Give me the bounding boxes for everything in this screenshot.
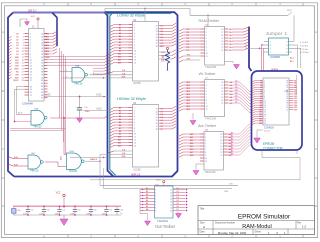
capacitors C2-C7 bbox=[23, 206, 112, 217]
bus bottom horizontal bbox=[14, 171, 178, 177]
svg-text:3: 3 bbox=[155, 192, 156, 194]
svg-text:A20C: A20C bbox=[96, 94, 102, 97]
svg-text:2: 2 bbox=[155, 189, 156, 191]
svg-text:DAT 0..7: DAT 0..7 bbox=[28, 9, 37, 13]
svg-text:5-6:Sim: 5-6:Sim bbox=[302, 49, 309, 51]
svg-text:2: 2 bbox=[30, 36, 31, 38]
wires U1 to gate U5A inputs bbox=[60, 70, 73, 79]
svg-text:3: 3 bbox=[134, 113, 135, 115]
svg-text:RAM-Treiber: RAM-Treiber bbox=[199, 19, 220, 23]
svg-text:6: 6 bbox=[134, 39, 135, 41]
wire U6 VCC bbox=[207, 14, 209, 26]
svg-text:Monday, May 22, 2000: Monday, May 22, 2000 bbox=[218, 231, 247, 235]
svg-text:5: 5 bbox=[270, 48, 271, 50]
svg-text:5: 5 bbox=[134, 36, 135, 38]
section label Jumper 1 bbox=[266, 31, 288, 36]
svg-text:/CE: /CE bbox=[122, 150, 126, 152]
svg-text:45: 45 bbox=[41, 92, 43, 94]
svg-text:14: 14 bbox=[134, 145, 136, 147]
svg-text:43: 43 bbox=[41, 86, 43, 88]
svg-text:A19C: A19C bbox=[45, 94, 51, 97]
svg-text:6: 6 bbox=[287, 48, 288, 50]
svg-text:17: 17 bbox=[264, 116, 266, 118]
cap row top wire bbox=[13, 205, 121, 208]
svg-text:2: 2 bbox=[287, 41, 288, 43]
svg-text:VCC: VCC bbox=[287, 10, 292, 12]
svg-text:DIR: DIR bbox=[187, 59, 191, 61]
svg-text:U5A: U5A bbox=[75, 65, 80, 68]
svg-text:5: 5 bbox=[155, 198, 156, 200]
svg-text:11: 11 bbox=[205, 161, 207, 163]
svg-text:17: 17 bbox=[221, 32, 223, 34]
wire gray top horizontal bbox=[105, 8, 190, 15]
svg-text:16: 16 bbox=[220, 140, 222, 142]
svg-text:6: 6 bbox=[30, 48, 31, 50]
title block Title label bbox=[200, 207, 205, 211]
svg-text:38: 38 bbox=[41, 71, 43, 73]
svg-text:14: 14 bbox=[170, 198, 172, 200]
svg-text:9: 9 bbox=[134, 131, 135, 133]
svg-text:2: 2 bbox=[134, 110, 135, 112]
bus data vertical DBUS bbox=[105, 12, 178, 176]
svg-text:12: 12 bbox=[30, 66, 32, 68]
svg-text:18: 18 bbox=[221, 29, 223, 31]
svg-text:6: 6 bbox=[155, 201, 156, 203]
svg-text:16: 16 bbox=[170, 192, 172, 194]
svg-text:10: 10 bbox=[205, 158, 207, 160]
svg-text:Wr-Treiber: Wr-Treiber bbox=[199, 72, 217, 76]
svg-text:14: 14 bbox=[156, 34, 158, 36]
svg-text:EPROM Simulator: EPROM Simulator bbox=[238, 214, 291, 221]
svg-text:100n: 100n bbox=[86, 213, 90, 215]
svg-text:ACK: ACK bbox=[18, 112, 23, 115]
long wire OE bbox=[100, 184, 238, 186]
svg-text:/WE: /WE bbox=[121, 77, 126, 79]
svg-text:19: 19 bbox=[30, 89, 32, 91]
svg-text:HIGHer 32 KByte: HIGHer 32 KByte bbox=[117, 96, 147, 101]
svg-text:18: 18 bbox=[264, 118, 266, 120]
svg-text:VCC: VCC bbox=[156, 179, 161, 181]
svg-text:12: 12 bbox=[156, 111, 158, 113]
ground at U8 bbox=[193, 164, 204, 175]
section label HIGHer 32 KByte bbox=[117, 96, 147, 101]
bus entries U1 to data bus bbox=[48, 31, 58, 54]
svg-text:74HC08: 74HC08 bbox=[69, 171, 78, 173]
svg-text:9: 9 bbox=[134, 48, 135, 50]
title block Size cell bbox=[200, 222, 205, 229]
svg-text:16: 16 bbox=[221, 88, 223, 90]
svg-text:74HC541: 74HC541 bbox=[157, 219, 169, 223]
svg-text:17: 17 bbox=[170, 189, 172, 191]
jumper J2 body bbox=[269, 38, 289, 55]
svg-text:10: 10 bbox=[206, 53, 208, 55]
svg-text:7: 7 bbox=[155, 204, 156, 206]
connector J3 body bbox=[263, 78, 289, 125]
svg-text:18: 18 bbox=[156, 46, 158, 48]
svg-text:/OE: /OE bbox=[122, 153, 126, 155]
net label A20 vertical bbox=[60, 155, 63, 160]
wires U6 outputs to bus bbox=[233, 27, 249, 50]
nand gate U5B bbox=[31, 109, 47, 129]
svg-text:3: 3 bbox=[93, 73, 94, 75]
svg-text:5: 5 bbox=[206, 91, 207, 93]
RAM U2 refdes bbox=[133, 19, 137, 22]
resistor R1 bbox=[161, 50, 170, 70]
svg-text:14: 14 bbox=[264, 109, 266, 111]
wire R1 to net bbox=[167, 69, 169, 71]
svg-text:13: 13 bbox=[264, 107, 266, 109]
svg-text:CON8DIP: CON8DIP bbox=[270, 57, 281, 59]
junction VCC cap row bbox=[63, 205, 65, 207]
svg-text:27: 27 bbox=[41, 39, 43, 41]
svg-text:1: 1 bbox=[30, 34, 31, 36]
wire pair below gates bbox=[10, 129, 66, 131]
nand gate U5C bbox=[28, 153, 43, 173]
connector U1 right pins bbox=[41, 34, 47, 100]
svg-text:44: 44 bbox=[41, 89, 43, 91]
wires U8 outputs to connector bus bbox=[228, 124, 252, 156]
connector U1 body bbox=[29, 29, 45, 102]
svg-text:11: 11 bbox=[134, 137, 136, 139]
svg-text:14: 14 bbox=[221, 41, 223, 43]
svg-text:13: 13 bbox=[220, 149, 222, 151]
connector U1 name CONN48 bbox=[22, 101, 33, 105]
RAM U2 body bbox=[133, 22, 159, 82]
svg-text:3: 3 bbox=[206, 32, 207, 34]
svg-text:12: 12 bbox=[156, 28, 158, 30]
svg-text:Jumper 1: Jumper 1 bbox=[266, 31, 288, 36]
svg-text:9: 9 bbox=[205, 155, 206, 157]
svg-text:22: 22 bbox=[286, 94, 288, 96]
connector U1 left pins and labels bbox=[13, 34, 31, 83]
svg-text:27: 27 bbox=[286, 83, 288, 85]
svg-text:1-2:A15: 1-2:A15 bbox=[302, 41, 309, 44]
svg-text:8: 8 bbox=[287, 52, 288, 54]
svg-text:11: 11 bbox=[222, 50, 224, 52]
svg-text:14: 14 bbox=[220, 146, 222, 148]
svg-text:17: 17 bbox=[221, 85, 223, 87]
svg-text:DIL28: DIL28 bbox=[264, 131, 271, 133]
ground at U9 right bbox=[176, 212, 182, 219]
wires U3 data to DBUS bbox=[156, 106, 176, 131]
svg-text:26: 26 bbox=[286, 85, 288, 87]
svg-text:11: 11 bbox=[134, 54, 136, 56]
svg-text:5: 5 bbox=[134, 119, 135, 121]
svg-text:5: 5 bbox=[30, 45, 31, 47]
svg-text:7: 7 bbox=[134, 42, 135, 44]
svg-text:11: 11 bbox=[221, 155, 223, 157]
nand gate U5A bbox=[72, 65, 87, 86]
label A19C bbox=[45, 94, 51, 97]
svg-text:13: 13 bbox=[30, 69, 32, 71]
labels jumper nets bbox=[290, 57, 294, 63]
wires right of J3 bbox=[294, 75, 297, 95]
svg-text:14: 14 bbox=[221, 94, 223, 96]
net label ADR.H bbox=[271, 67, 278, 71]
bus entries to U5C inputs bbox=[8, 156, 28, 167]
svg-text:28: 28 bbox=[41, 42, 43, 44]
svg-text:15: 15 bbox=[156, 120, 158, 122]
RAM U3 name bbox=[134, 167, 142, 171]
svg-text:74HC245: 74HC245 bbox=[205, 170, 217, 174]
long wire CS right bbox=[90, 179, 300, 181]
svg-text:13: 13 bbox=[221, 97, 223, 99]
title text EPROM Simulator bbox=[238, 214, 291, 221]
svg-text:10: 10 bbox=[134, 134, 136, 136]
svg-text:17: 17 bbox=[286, 105, 288, 107]
connector U1 lower left pins bbox=[15, 86, 32, 121]
svg-text:100n: 100n bbox=[39, 213, 43, 215]
bus connector right vertical bbox=[249, 27, 252, 72]
svg-text:21: 21 bbox=[30, 95, 32, 97]
nand gate U5D bbox=[67, 151, 85, 173]
svg-text:/OE: /OE bbox=[229, 184, 233, 186]
svg-text:21: 21 bbox=[286, 96, 288, 98]
wires jumper left bbox=[246, 43, 264, 71]
wires U2 control right bbox=[159, 50, 177, 61]
svg-text:74HC245: 74HC245 bbox=[205, 65, 217, 69]
wire U5C output bbox=[45, 162, 67, 167]
svg-text:13: 13 bbox=[156, 114, 158, 116]
svg-text:13: 13 bbox=[170, 201, 172, 203]
svg-text:CONNECTOR: CONNECTOR bbox=[263, 147, 283, 151]
svg-text:15: 15 bbox=[286, 109, 288, 111]
svg-text:16: 16 bbox=[30, 77, 32, 79]
svg-text:74HC00: 74HC00 bbox=[33, 127, 42, 129]
svg-text:4: 4 bbox=[30, 42, 31, 44]
svg-text:7-8:Mem: 7-8:Mem bbox=[302, 52, 310, 54]
power VCC at R1 bbox=[160, 46, 168, 50]
bus entries to U1 left labels bbox=[8, 36, 12, 79]
svg-text:Adr-Treiber: Adr-Treiber bbox=[198, 124, 217, 128]
svg-text:BD6: BD6 bbox=[259, 123, 262, 125]
wire row A19C bbox=[44, 95, 110, 97]
svg-text:CONN28: CONN28 bbox=[264, 126, 274, 129]
svg-text:/EN: /EN bbox=[187, 55, 191, 57]
jumper J2 pins bbox=[264, 41, 292, 54]
svg-text:62256: 62256 bbox=[134, 81, 142, 85]
wire right edge vertical bbox=[262, 150, 300, 180]
ground below C9 bbox=[77, 118, 83, 123]
RAM U3 body bbox=[133, 105, 159, 168]
svg-text:11: 11 bbox=[156, 25, 158, 27]
section label LOWer 32 KByte bbox=[117, 13, 146, 18]
svg-text:17: 17 bbox=[156, 43, 158, 45]
svg-text:35: 35 bbox=[41, 63, 43, 65]
svg-text:U5C: U5C bbox=[31, 153, 36, 155]
svg-text:74HC245: 74HC245 bbox=[205, 117, 217, 121]
svg-text:C7: C7 bbox=[110, 209, 112, 211]
wire U5A output bbox=[89, 73, 132, 76]
buffer U9 body bbox=[155, 186, 174, 218]
svg-text:4: 4 bbox=[134, 33, 135, 35]
wire U5D out to row W1 bbox=[100, 154, 104, 188]
svg-text:3: 3 bbox=[30, 39, 31, 41]
svg-text:D: D bbox=[315, 204, 317, 208]
svg-text:C: C bbox=[2, 147, 4, 151]
svg-text:1: 1 bbox=[66, 70, 67, 72]
svg-text:VCC: VCC bbox=[31, 16, 36, 18]
svg-text:VCC: VCC bbox=[160, 46, 165, 48]
wire row A20C bbox=[83, 109, 110, 111]
wire U9 left vertical bbox=[139, 190, 141, 211]
svg-text:6: 6 bbox=[206, 41, 207, 43]
RAM U2 address pins bbox=[110, 23, 136, 64]
buffer U7 Wr-Treiber bbox=[199, 72, 234, 121]
buffer U9 right pins bbox=[170, 188, 187, 212]
svg-text:100n: 100n bbox=[70, 213, 74, 215]
svg-text:33: 33 bbox=[41, 57, 43, 59]
svg-text:16: 16 bbox=[221, 35, 223, 37]
svg-text:4: 4 bbox=[155, 195, 156, 197]
svg-text:15: 15 bbox=[264, 112, 266, 114]
wires to U6 enable pins bbox=[179, 55, 201, 63]
svg-text:3: 3 bbox=[134, 30, 135, 32]
svg-text:15: 15 bbox=[221, 91, 223, 93]
svg-text:3: 3 bbox=[270, 45, 271, 47]
svg-text:11: 11 bbox=[264, 103, 266, 105]
RAM U2 name bbox=[134, 81, 142, 85]
svg-text:7: 7 bbox=[30, 51, 31, 53]
svg-text:of: of bbox=[276, 232, 278, 235]
title block Document Number label bbox=[215, 222, 235, 225]
svg-text:U5D: U5D bbox=[70, 151, 75, 153]
buffer U9 left pins bbox=[140, 187, 156, 212]
svg-text:8: 8 bbox=[134, 128, 135, 130]
capacitor C9 bbox=[77, 97, 90, 118]
svg-text:A20C: A20C bbox=[96, 108, 102, 111]
svg-text:62256: 62256 bbox=[134, 167, 142, 171]
bus left ring vertical bbox=[8, 13, 14, 177]
RAM U2 control pins bbox=[70, 70, 133, 79]
svg-text:6: 6 bbox=[206, 94, 207, 96]
svg-text:13: 13 bbox=[156, 31, 158, 33]
ground at U1 top bbox=[25, 22, 30, 26]
svg-text:B: B bbox=[315, 89, 317, 93]
svg-text:13: 13 bbox=[134, 59, 136, 61]
svg-text:9: 9 bbox=[206, 50, 207, 52]
wires DBUS to U7 left bbox=[179, 82, 201, 111]
svg-text:100n: 100n bbox=[55, 213, 59, 215]
ground at U9 left bbox=[140, 211, 151, 226]
svg-text:9: 9 bbox=[30, 57, 31, 59]
wires U2 data to DBUS bbox=[156, 23, 176, 48]
svg-text:11: 11 bbox=[156, 108, 158, 110]
svg-text:C8: C8 bbox=[120, 209, 122, 211]
label A15 box bbox=[284, 90, 289, 93]
capacitor C1 electrolytic bbox=[12, 207, 21, 216]
svg-text:11: 11 bbox=[170, 207, 172, 209]
wire ladder U1 to address bus bbox=[48, 54, 110, 74]
svg-text:8: 8 bbox=[155, 207, 156, 209]
svg-text:8: 8 bbox=[30, 54, 31, 56]
svg-text:12: 12 bbox=[134, 57, 136, 59]
svg-text:25: 25 bbox=[41, 34, 43, 36]
net label DATA bus bbox=[28, 9, 37, 13]
svg-text:13: 13 bbox=[134, 142, 136, 144]
svg-text:5: 5 bbox=[205, 143, 206, 145]
svg-text:20: 20 bbox=[286, 98, 288, 100]
svg-text:7: 7 bbox=[270, 52, 271, 54]
title block Date row bbox=[200, 231, 287, 235]
svg-text:18: 18 bbox=[30, 86, 32, 88]
svg-text:12: 12 bbox=[264, 105, 266, 107]
svg-text:6: 6 bbox=[134, 122, 135, 124]
svg-text:14: 14 bbox=[134, 62, 136, 64]
svg-text:GND: GND bbox=[46, 57, 51, 59]
svg-text:10u: 10u bbox=[17, 210, 20, 212]
svg-text:ADR 1..8: ADR 1..8 bbox=[131, 173, 141, 177]
svg-text:6: 6 bbox=[205, 146, 206, 148]
wire VCC right vertical bbox=[287, 14, 289, 16]
svg-text:16: 16 bbox=[286, 107, 288, 109]
svg-text:U5B: U5B bbox=[34, 109, 39, 111]
svg-text:18: 18 bbox=[156, 129, 158, 131]
svg-text:15: 15 bbox=[156, 37, 158, 39]
ground at J3 bbox=[254, 130, 263, 143]
title block frame bbox=[198, 206, 315, 235]
ground at U6 bbox=[225, 62, 240, 70]
svg-text:15: 15 bbox=[170, 195, 172, 197]
svg-text:18: 18 bbox=[220, 134, 222, 136]
svg-text:18: 18 bbox=[221, 82, 223, 84]
long wire VCC top bbox=[190, 10, 292, 15]
svg-text:15: 15 bbox=[30, 74, 32, 76]
svg-text:17: 17 bbox=[30, 80, 32, 82]
svg-text:10: 10 bbox=[206, 106, 208, 108]
svg-text:7: 7 bbox=[134, 125, 135, 127]
svg-text:7: 7 bbox=[206, 44, 207, 46]
power VCC above cap row bbox=[56, 193, 66, 207]
wire U5B inputs bbox=[14, 112, 32, 123]
buffer U8 Adr-Treiber bbox=[198, 124, 233, 174]
svg-text:Date:: Date: bbox=[200, 231, 206, 234]
wires jumper right bbox=[292, 15, 301, 68]
svg-text:Title: Title bbox=[200, 207, 205, 211]
svg-text:A: A bbox=[315, 30, 317, 34]
wires DBUS to U8 left bbox=[179, 133, 200, 157]
bus RAM address vertical bbox=[105, 13, 114, 177]
title block Rev cell bbox=[297, 222, 306, 229]
svg-text:15: 15 bbox=[221, 38, 223, 40]
svg-text:20: 20 bbox=[264, 123, 266, 125]
svg-text:39: 39 bbox=[41, 74, 43, 76]
capacitor C8 bbox=[115, 207, 123, 216]
svg-text:3: 3 bbox=[205, 137, 206, 139]
svg-text:LOWer 32 KByte: LOWer 32 KByte bbox=[117, 13, 146, 18]
svg-text:A: A bbox=[2, 30, 4, 34]
long wire WE bbox=[104, 189, 233, 194]
svg-text:A: A bbox=[203, 225, 205, 229]
connector J3 name bbox=[264, 126, 274, 132]
svg-text:/WE: /WE bbox=[121, 156, 126, 158]
svg-text:31: 31 bbox=[41, 51, 43, 53]
svg-text:2: 2 bbox=[205, 134, 206, 136]
svg-text:4: 4 bbox=[206, 88, 207, 90]
svg-text:8: 8 bbox=[206, 47, 207, 49]
wires U7 outputs to connector bus bbox=[233, 81, 252, 113]
svg-text:/CE: /CE bbox=[122, 70, 126, 72]
connector J3 left pins bbox=[252, 79, 267, 125]
jumper option table bbox=[300, 41, 309, 54]
svg-text:4: 4 bbox=[206, 35, 207, 37]
svg-text:16: 16 bbox=[264, 114, 266, 116]
svg-text:1: 1 bbox=[134, 107, 135, 109]
svg-text:12: 12 bbox=[221, 47, 223, 49]
svg-text:B: B bbox=[2, 89, 4, 93]
svg-text:12: 12 bbox=[170, 204, 172, 206]
connector J3 right pins bbox=[286, 79, 297, 111]
